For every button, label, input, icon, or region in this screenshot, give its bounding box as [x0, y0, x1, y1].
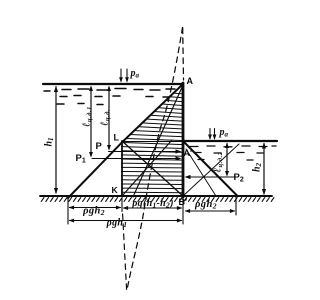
svg-text:P: P [96, 141, 103, 152]
h1 dimension [55, 87, 57, 194]
right water dashes [190, 146, 276, 160]
construction: L to B' [122, 141, 183, 196]
svg-text:ℓц.д.1: ℓц.д.1 [82, 106, 94, 127]
svg-text:ρgh2: ρgh2 [194, 199, 217, 211]
svg-text:h2: h2 [252, 162, 264, 172]
h2 dimension [263, 144, 265, 195]
svg-text:ρg(h1-h2): ρg(h1-h2) [131, 198, 174, 210]
construction right triangle 1 [183, 144, 239, 196]
svg-text:pa: pa [219, 127, 229, 139]
construction: K up-right [122, 140, 172, 196]
svg-text:ℓц.д.: ℓц.д. [100, 109, 112, 126]
svg-text:L: L [114, 133, 120, 143]
dim row: rho g h2 left [70, 207, 121, 209]
dim row: rho g h1 [70, 220, 182, 222]
l_cd dimension [108, 87, 110, 149]
svg-text:P2: P2 [234, 172, 244, 184]
l_cd2 dimension [226, 144, 228, 176]
svg-text:A′: A′ [184, 148, 193, 158]
P1 arrow [92, 158, 180, 160]
P2 arrow [187, 176, 237, 178]
main hypotenuse (68,196)-L-A [68, 84, 183, 198]
svg-text:K: K [112, 185, 119, 195]
svg-text:pa: pa [130, 68, 140, 80]
extension ticks below ground [67, 199, 69, 225]
svg-text:ℓц.д.2: ℓц.д.2 [213, 151, 225, 172]
box left edge L-K [121, 141, 123, 196]
construction: thin line from A to lower-left [133, 85, 183, 197]
dim row: rho g (h1-h2) [124, 207, 182, 209]
right pa arrows [209, 129, 211, 139]
svg-text:A: A [187, 76, 194, 86]
svg-text:h1: h1 [44, 137, 56, 146]
ground hatch ticks [41, 197, 274, 202]
dim row: rho g h2 right [186, 210, 235, 212]
left pa arrows [120, 69, 122, 81]
l_cd1 dimension [90, 87, 92, 156]
right hypotenuse A'-(237,195) [183, 141, 237, 196]
svg-text:ρgh2: ρgh2 [82, 206, 105, 218]
construction right triangle 2 [186, 149, 216, 196]
left water dashes [44, 89, 175, 105]
svg-text:ρgh1: ρgh1 [106, 218, 128, 230]
dashed line D1 (long, top apex to bottom) [127, 28, 183, 291]
svg-text:P1: P1 [76, 153, 86, 165]
ground line [40, 195, 272, 197]
left water surface [43, 83, 183, 85]
dashed line D2 (apex down to A) [182, 28, 185, 80]
L level line to wall [122, 141, 183, 143]
wall A-B (vertical) [182, 83, 185, 197]
P arrow (resultant) [109, 151, 180, 153]
right water surface [183, 140, 277, 142]
dashed line D3 (below ground, near K) [123, 214, 127, 290]
